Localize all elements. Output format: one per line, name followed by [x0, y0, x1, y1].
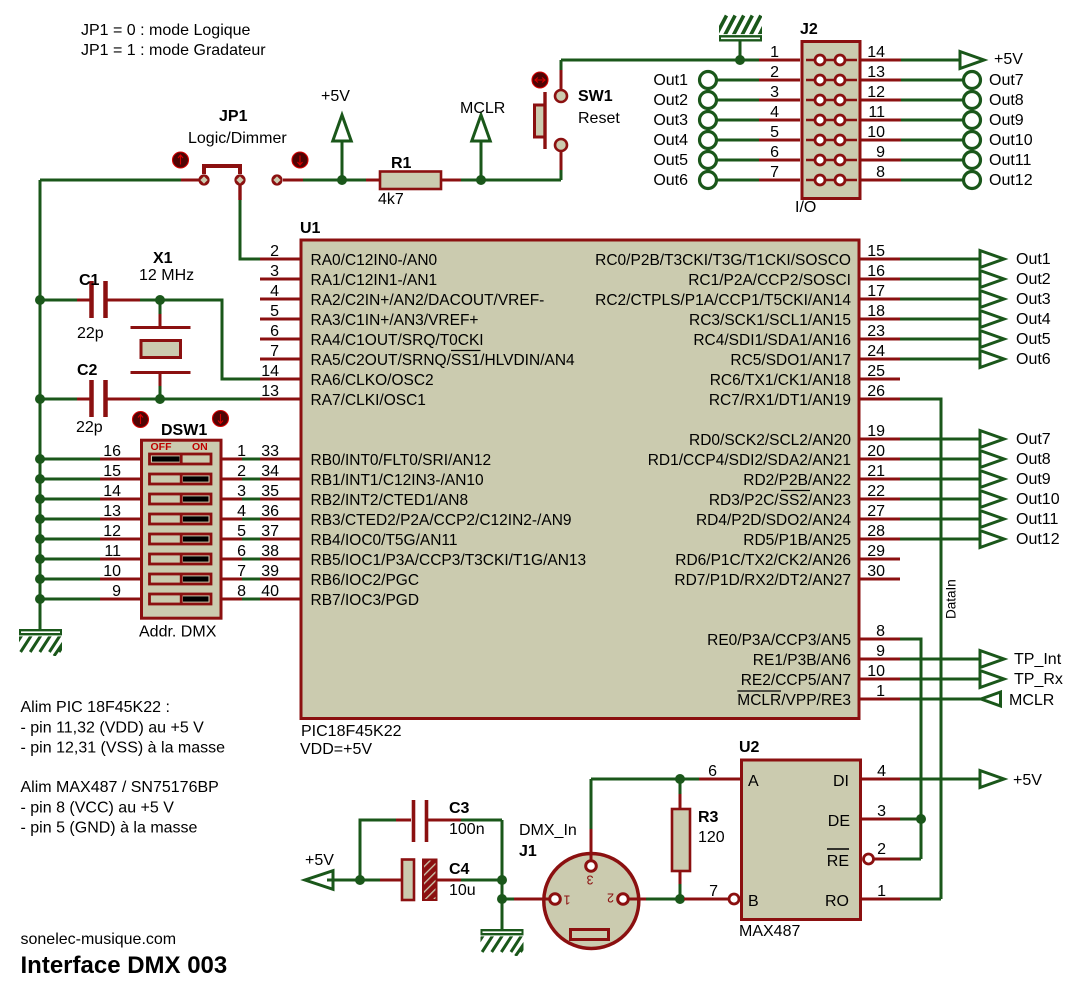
- svg-text:4k7: 4k7: [378, 191, 404, 208]
- svg-text:20: 20: [867, 443, 885, 460]
- svg-text:TP_Rx: TP_Rx: [1014, 671, 1063, 688]
- svg-text:21: 21: [867, 463, 885, 480]
- svg-text:12: 12: [103, 523, 121, 540]
- svg-text:RC0/P2B/T3CKI/T3G/T1CKI/SOSCO: RC0/P2B/T3CKI/T3G/T1CKI/SOSCO: [595, 252, 851, 269]
- svg-text:2: 2: [877, 841, 886, 858]
- svg-text:10u: 10u: [449, 882, 476, 899]
- svg-text:RA0/C12IN0-/AN0: RA0/C12IN0-/AN0: [311, 252, 438, 269]
- svg-text:RD2/P2B/AN22: RD2/P2B/AN22: [743, 472, 851, 489]
- svg-text:12: 12: [867, 84, 885, 101]
- svg-text:A: A: [748, 773, 759, 790]
- svg-text:3: 3: [877, 803, 886, 820]
- svg-text:RO: RO: [825, 893, 849, 910]
- svg-text:RB1/INT1/C12IN3-/AN10: RB1/INT1/C12IN3-/AN10: [311, 472, 485, 489]
- svg-text:RE1/P3B/AN6: RE1/P3B/AN6: [753, 652, 851, 669]
- svg-text:Out12: Out12: [1016, 531, 1060, 548]
- svg-text:30: 30: [867, 563, 885, 580]
- svg-text:RD4/P2D/SDO2/AN24: RD4/P2D/SDO2/AN24: [696, 512, 851, 529]
- svg-text:RB4/IOC0/T5G/AN11: RB4/IOC0/T5G/AN11: [311, 532, 458, 549]
- svg-text:RD0/SCK2/SCL2/AN20: RD0/SCK2/SCL2/AN20: [689, 432, 851, 449]
- svg-text:RA5/C2OUT/SRNQ/SS1/HLVDIN/AN4: RA5/C2OUT/SRNQ/SS1/HLVDIN/AN4: [311, 352, 576, 369]
- svg-text:17: 17: [867, 283, 885, 300]
- svg-text:RB7/IOC3/PGD: RB7/IOC3/PGD: [311, 592, 420, 609]
- svg-text:23: 23: [867, 323, 885, 340]
- svg-text:- pin 8 (VCC) au +5 V: - pin 8 (VCC) au +5 V: [21, 800, 175, 817]
- svg-text:DataIn: DataIn: [944, 579, 959, 619]
- svg-text:19: 19: [867, 423, 885, 440]
- svg-text:RE0/P3A/CCP3/AN5: RE0/P3A/CCP3/AN5: [707, 632, 851, 649]
- svg-text:40: 40: [261, 583, 279, 600]
- svg-text:VDD=+5V: VDD=+5V: [300, 741, 372, 758]
- svg-text:4: 4: [237, 503, 246, 520]
- svg-text:2: 2: [770, 64, 779, 81]
- svg-text:RE: RE: [827, 853, 849, 870]
- svg-text:14: 14: [103, 483, 121, 500]
- svg-text:RC7/RX1/DT1/AN19: RC7/RX1/DT1/AN19: [709, 392, 851, 409]
- svg-text:- pin 5 (GND) à la masse: - pin 5 (GND) à la masse: [21, 820, 198, 837]
- svg-text:7: 7: [770, 164, 779, 181]
- svg-text:RA3/C1IN+/AN3/VREF+: RA3/C1IN+/AN3/VREF+: [311, 312, 479, 329]
- svg-text:14: 14: [867, 44, 885, 61]
- svg-text:RA7/CLKI/OSC1: RA7/CLKI/OSC1: [311, 392, 426, 409]
- svg-text:R1: R1: [391, 155, 412, 172]
- svg-text:15: 15: [103, 463, 121, 480]
- svg-text:24: 24: [867, 343, 885, 360]
- svg-text:OFF: OFF: [151, 441, 173, 453]
- svg-text:DMX_In: DMX_In: [519, 822, 577, 839]
- svg-text:34: 34: [261, 463, 279, 480]
- svg-text:Out8: Out8: [1016, 451, 1051, 468]
- svg-text:3: 3: [586, 872, 593, 886]
- svg-text:13: 13: [867, 64, 885, 81]
- svg-text:Out8: Out8: [989, 92, 1024, 109]
- svg-text:13: 13: [261, 383, 279, 400]
- svg-text:22: 22: [867, 483, 885, 500]
- svg-text:C2: C2: [77, 362, 98, 379]
- svg-text:RA1/C12IN1-/AN1: RA1/C12IN1-/AN1: [311, 272, 438, 289]
- svg-text:Alim MAX487 / SN75176BP: Alim MAX487 / SN75176BP: [21, 779, 219, 796]
- svg-text:DSW1: DSW1: [161, 422, 207, 439]
- svg-text:8: 8: [876, 623, 885, 640]
- svg-text:4: 4: [270, 283, 279, 300]
- svg-text:6: 6: [770, 144, 779, 161]
- svg-text:16: 16: [103, 443, 121, 460]
- svg-text:JP1: JP1: [219, 108, 248, 125]
- svg-text:Out6: Out6: [653, 172, 688, 189]
- svg-text:1: 1: [237, 443, 246, 460]
- svg-text:12 MHz: 12 MHz: [139, 267, 194, 284]
- svg-text:5: 5: [270, 303, 279, 320]
- svg-text:4: 4: [877, 763, 886, 780]
- svg-text:MCLR: MCLR: [1009, 692, 1054, 709]
- svg-text:4: 4: [770, 104, 779, 121]
- svg-text:Out10: Out10: [1016, 491, 1060, 508]
- svg-text:5: 5: [770, 124, 779, 141]
- svg-text:RA6/CLKO/OSC2: RA6/CLKO/OSC2: [311, 372, 434, 389]
- svg-text:1: 1: [563, 892, 570, 906]
- svg-text:sonelec-musique.com: sonelec-musique.com: [21, 931, 177, 948]
- svg-text:28: 28: [867, 523, 885, 540]
- svg-text:7: 7: [270, 343, 279, 360]
- svg-text:J2: J2: [800, 21, 818, 38]
- svg-text:Out11: Out11: [989, 152, 1032, 169]
- svg-text:1: 1: [876, 683, 885, 700]
- svg-text:Alim PIC 18F45K22 :: Alim PIC 18F45K22 :: [21, 699, 170, 716]
- svg-text:- pin 12,31 (VSS) à la masse: - pin 12,31 (VSS) à la masse: [21, 740, 226, 757]
- svg-text:29: 29: [867, 543, 885, 560]
- svg-text:5: 5: [237, 523, 246, 540]
- svg-text:RD1/CCP4/SDI2/SDA2/AN21: RD1/CCP4/SDI2/SDA2/AN21: [648, 452, 851, 469]
- svg-text:Out12: Out12: [989, 172, 1033, 189]
- svg-text:35: 35: [261, 483, 279, 500]
- svg-text:Out5: Out5: [653, 152, 688, 169]
- svg-text:2: 2: [237, 463, 246, 480]
- svg-text:9: 9: [876, 144, 885, 161]
- svg-text:16: 16: [867, 263, 885, 280]
- svg-text:DE: DE: [828, 813, 850, 830]
- svg-text:6: 6: [708, 763, 717, 780]
- svg-text:120: 120: [698, 829, 725, 846]
- svg-text:36: 36: [261, 503, 279, 520]
- svg-text:2: 2: [607, 890, 614, 904]
- svg-text:25: 25: [867, 363, 885, 380]
- svg-text:10: 10: [867, 124, 885, 141]
- svg-text:3: 3: [237, 483, 246, 500]
- svg-text:RD3/P2C/SS2/AN23: RD3/P2C/SS2/AN23: [709, 492, 851, 509]
- svg-text:RC4/SDI1/SDA1/AN16: RC4/SDI1/SDA1/AN16: [693, 332, 851, 349]
- svg-text:RC6/TX1/CK1/AN18: RC6/TX1/CK1/AN18: [710, 372, 851, 389]
- svg-text:JP1 = 1 : mode Gradateur: JP1 = 1 : mode Gradateur: [81, 42, 266, 59]
- svg-text:Reset: Reset: [578, 110, 620, 127]
- svg-text:14: 14: [261, 363, 279, 380]
- svg-text:+5V: +5V: [321, 88, 350, 105]
- svg-text:I/O: I/O: [795, 199, 816, 216]
- svg-text:C4: C4: [449, 861, 470, 878]
- svg-text:100n: 100n: [449, 821, 485, 838]
- svg-text:RB6/IOC2/PGC: RB6/IOC2/PGC: [311, 572, 420, 589]
- svg-text:- pin 11,32 (VDD) au +5 V: - pin 11,32 (VDD) au +5 V: [21, 720, 205, 737]
- svg-text:6: 6: [270, 323, 279, 340]
- svg-text:Logic/Dimmer: Logic/Dimmer: [188, 130, 287, 147]
- svg-text:Out11: Out11: [1016, 511, 1059, 528]
- svg-text:11: 11: [104, 543, 121, 560]
- svg-text:Out10: Out10: [989, 132, 1033, 149]
- svg-text:22p: 22p: [77, 325, 104, 342]
- svg-text:RA2/C2IN+/AN2/DACOUT/VREF-: RA2/C2IN+/AN2/DACOUT/VREF-: [311, 292, 545, 309]
- svg-text:Out2: Out2: [1016, 271, 1051, 288]
- svg-text:RC3/SCK1/SCL1/AN15: RC3/SCK1/SCL1/AN15: [689, 312, 851, 329]
- svg-text:RE2/CCP5/AN7: RE2/CCP5/AN7: [741, 672, 851, 689]
- svg-text:15: 15: [867, 243, 885, 260]
- svg-text:RC5/SDO1/AN17: RC5/SDO1/AN17: [730, 352, 851, 369]
- svg-text:11: 11: [868, 104, 885, 121]
- svg-text:27: 27: [867, 503, 885, 520]
- svg-text:Out9: Out9: [1016, 471, 1051, 488]
- svg-text:SW1: SW1: [578, 88, 613, 105]
- svg-text:22p: 22p: [76, 419, 103, 436]
- svg-text:Interface DMX 003: Interface DMX 003: [21, 952, 228, 979]
- svg-text:8: 8: [876, 164, 885, 181]
- svg-text:8: 8: [237, 583, 246, 600]
- svg-text:TP_Int: TP_Int: [1014, 651, 1062, 668]
- svg-text:J1: J1: [519, 843, 537, 860]
- svg-text:Out2: Out2: [653, 92, 688, 109]
- svg-text:RA4/C1OUT/SRQ/T0CKI: RA4/C1OUT/SRQ/T0CKI: [311, 332, 484, 349]
- svg-text:37: 37: [261, 523, 279, 540]
- svg-text:RD5/P1B/AN25: RD5/P1B/AN25: [743, 532, 851, 549]
- svg-text:C3: C3: [449, 800, 470, 817]
- svg-text:13: 13: [103, 503, 121, 520]
- svg-text:39: 39: [261, 563, 279, 580]
- svg-text:7: 7: [237, 563, 246, 580]
- svg-text:X1: X1: [153, 250, 173, 267]
- svg-text:R3: R3: [698, 809, 719, 826]
- svg-text:+5V: +5V: [994, 51, 1023, 68]
- svg-text:2: 2: [270, 243, 279, 260]
- svg-text:9: 9: [112, 583, 121, 600]
- svg-text:Out5: Out5: [1016, 331, 1051, 348]
- svg-text:RC2/CTPLS/P1A/CCP1/T5CKI/AN14: RC2/CTPLS/P1A/CCP1/T5CKI/AN14: [595, 292, 851, 309]
- svg-text:MCLR/VPP/RE3: MCLR/VPP/RE3: [737, 692, 851, 709]
- svg-text:38: 38: [261, 543, 279, 560]
- svg-text:33: 33: [261, 443, 279, 460]
- svg-text:Out9: Out9: [989, 112, 1024, 129]
- svg-text:RD7/P1D/RX2/DT2/AN27: RD7/P1D/RX2/DT2/AN27: [674, 572, 851, 589]
- svg-text:C1: C1: [79, 272, 100, 289]
- svg-text:1: 1: [877, 883, 886, 900]
- svg-text:6: 6: [237, 543, 246, 560]
- svg-text:Out4: Out4: [1016, 311, 1051, 328]
- svg-text:18: 18: [867, 303, 885, 320]
- svg-text:26: 26: [867, 383, 885, 400]
- svg-text:RC1/P2A/CCP2/SOSCI: RC1/P2A/CCP2/SOSCI: [688, 272, 851, 289]
- svg-text:3: 3: [270, 263, 279, 280]
- svg-text:RB5/IOC1/P3A/CCP3/T3CKI/T1G/AN: RB5/IOC1/P3A/CCP3/T3CKI/T1G/AN13: [311, 552, 587, 569]
- svg-text:RB3/CTED2/P2A/CCP2/C12IN2-/AN9: RB3/CTED2/P2A/CCP2/C12IN2-/AN9: [311, 512, 572, 529]
- svg-text:MAX487: MAX487: [739, 923, 800, 940]
- svg-text:+5V: +5V: [305, 852, 334, 869]
- svg-text:10: 10: [103, 563, 121, 580]
- svg-text:+5V: +5V: [1013, 772, 1042, 789]
- svg-text:1: 1: [770, 44, 779, 61]
- svg-text:Out6: Out6: [1016, 351, 1051, 368]
- svg-text:U2: U2: [739, 739, 760, 756]
- svg-text:RD6/P1C/TX2/CK2/AN26: RD6/P1C/TX2/CK2/AN26: [675, 552, 851, 569]
- svg-text:B: B: [748, 893, 759, 910]
- svg-text:MCLR: MCLR: [460, 100, 505, 117]
- svg-text:Out4: Out4: [653, 132, 688, 149]
- svg-text:Addr. DMX: Addr. DMX: [139, 624, 217, 641]
- svg-text:JP1 = 0 : mode Logique: JP1 = 0 : mode Logique: [81, 22, 251, 39]
- svg-text:RB0/INT0/FLT0/SRI/AN12: RB0/INT0/FLT0/SRI/AN12: [311, 452, 492, 469]
- svg-text:Out7: Out7: [1016, 431, 1051, 448]
- svg-text:ON: ON: [192, 441, 208, 453]
- svg-text:Out3: Out3: [1016, 291, 1051, 308]
- svg-text:Out7: Out7: [989, 72, 1024, 89]
- svg-text:3: 3: [770, 84, 779, 101]
- svg-text:RB2/INT2/CTED1/AN8: RB2/INT2/CTED1/AN8: [311, 492, 469, 509]
- svg-text:7: 7: [709, 883, 718, 900]
- svg-text:Out3: Out3: [653, 112, 688, 129]
- svg-text:10: 10: [867, 663, 885, 680]
- svg-text:PIC18F45K22: PIC18F45K22: [301, 723, 402, 740]
- svg-text:Out1: Out1: [1016, 251, 1051, 268]
- svg-text:Out1: Out1: [653, 72, 688, 89]
- svg-text:DI: DI: [833, 773, 849, 790]
- svg-text:U1: U1: [300, 220, 321, 237]
- svg-text:9: 9: [876, 643, 885, 660]
